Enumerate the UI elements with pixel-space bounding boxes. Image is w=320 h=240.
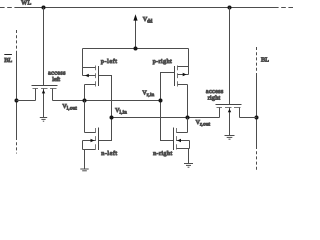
ground n-left	[80, 169, 88, 173]
node Vdd junction	[134, 47, 138, 51]
wire Vdd rail	[83, 48, 189, 50]
node BL junction	[255, 116, 259, 120]
svg-text:BL: BL	[4, 57, 12, 64]
wire WL word line	[0, 7, 294, 9]
svg-text:Vr,out: Vr,out	[196, 120, 211, 127]
svg-text:access: access	[206, 89, 224, 95]
svg-text:Vl,in: Vl,in	[115, 108, 127, 115]
wire p-left drain to VLout	[84, 85, 86, 101]
transistor p-right PMOS	[175, 66, 189, 87]
node drains-right junction	[186, 116, 190, 120]
wire left gate column	[99, 76, 112, 141]
ground access-left	[40, 118, 47, 122]
wire n-left drain	[84, 101, 86, 133]
svg-text:left: left	[52, 76, 60, 83]
svg-text:Vdd: Vdd	[143, 16, 153, 25]
svg-text:right: right	[208, 94, 221, 101]
label access left	[48, 70, 66, 83]
label access right	[206, 89, 224, 101]
node WL-right junction	[228, 6, 232, 10]
wire access-right gate	[229, 8, 231, 105]
svg-text:WL: WL	[21, 0, 31, 7]
ground n-right	[184, 164, 193, 168]
transistor access-left NMOS	[32, 86, 58, 118]
transistor access-right NMOS	[216, 105, 242, 136]
svg-text:n-left: n-left	[101, 150, 117, 157]
wire Vdd right drop	[188, 49, 190, 75]
svg-text:access: access	[48, 70, 66, 76]
svg-text:p-left: p-left	[101, 58, 118, 65]
transistor p-left PMOS	[83, 66, 99, 87]
svg-text:Vl,out: Vl,out	[62, 104, 77, 111]
node Vrin gate junction	[159, 99, 163, 103]
node WL-left junction	[42, 6, 46, 10]
wire n-right drain	[187, 118, 189, 133]
wire node VLout Vrin	[17, 100, 161, 102]
svg-text:Vr,in: Vr,in	[142, 91, 154, 98]
svg-text:n-right: n-right	[153, 150, 172, 157]
wire BLbar left bit line	[16, 30, 18, 154]
wire node VLin Vrout	[112, 117, 257, 119]
transistor n-right NMOS	[174, 128, 190, 151]
power Vdd arrow	[133, 14, 137, 48]
label BLbar	[4, 55, 12, 64]
node drains-left junction	[83, 99, 87, 103]
svg-text:p-right: p-right	[153, 58, 172, 65]
wire BL right bit line	[256, 47, 258, 172]
node BLbar junction	[15, 99, 19, 103]
wire n-left source to ground	[84, 150, 86, 169]
wire n-right source to ground	[188, 149, 190, 164]
transistor n-left NMOS	[83, 128, 99, 151]
wire right gate column	[161, 73, 175, 141]
node VLin gate junction	[110, 116, 114, 120]
svg-text:BL: BL	[261, 57, 269, 64]
wire Vdd left drop	[82, 49, 84, 76]
wire access-left gate	[43, 8, 45, 86]
ground access-right	[225, 136, 235, 140]
wire p-right drain to Vrout	[187, 85, 189, 118]
